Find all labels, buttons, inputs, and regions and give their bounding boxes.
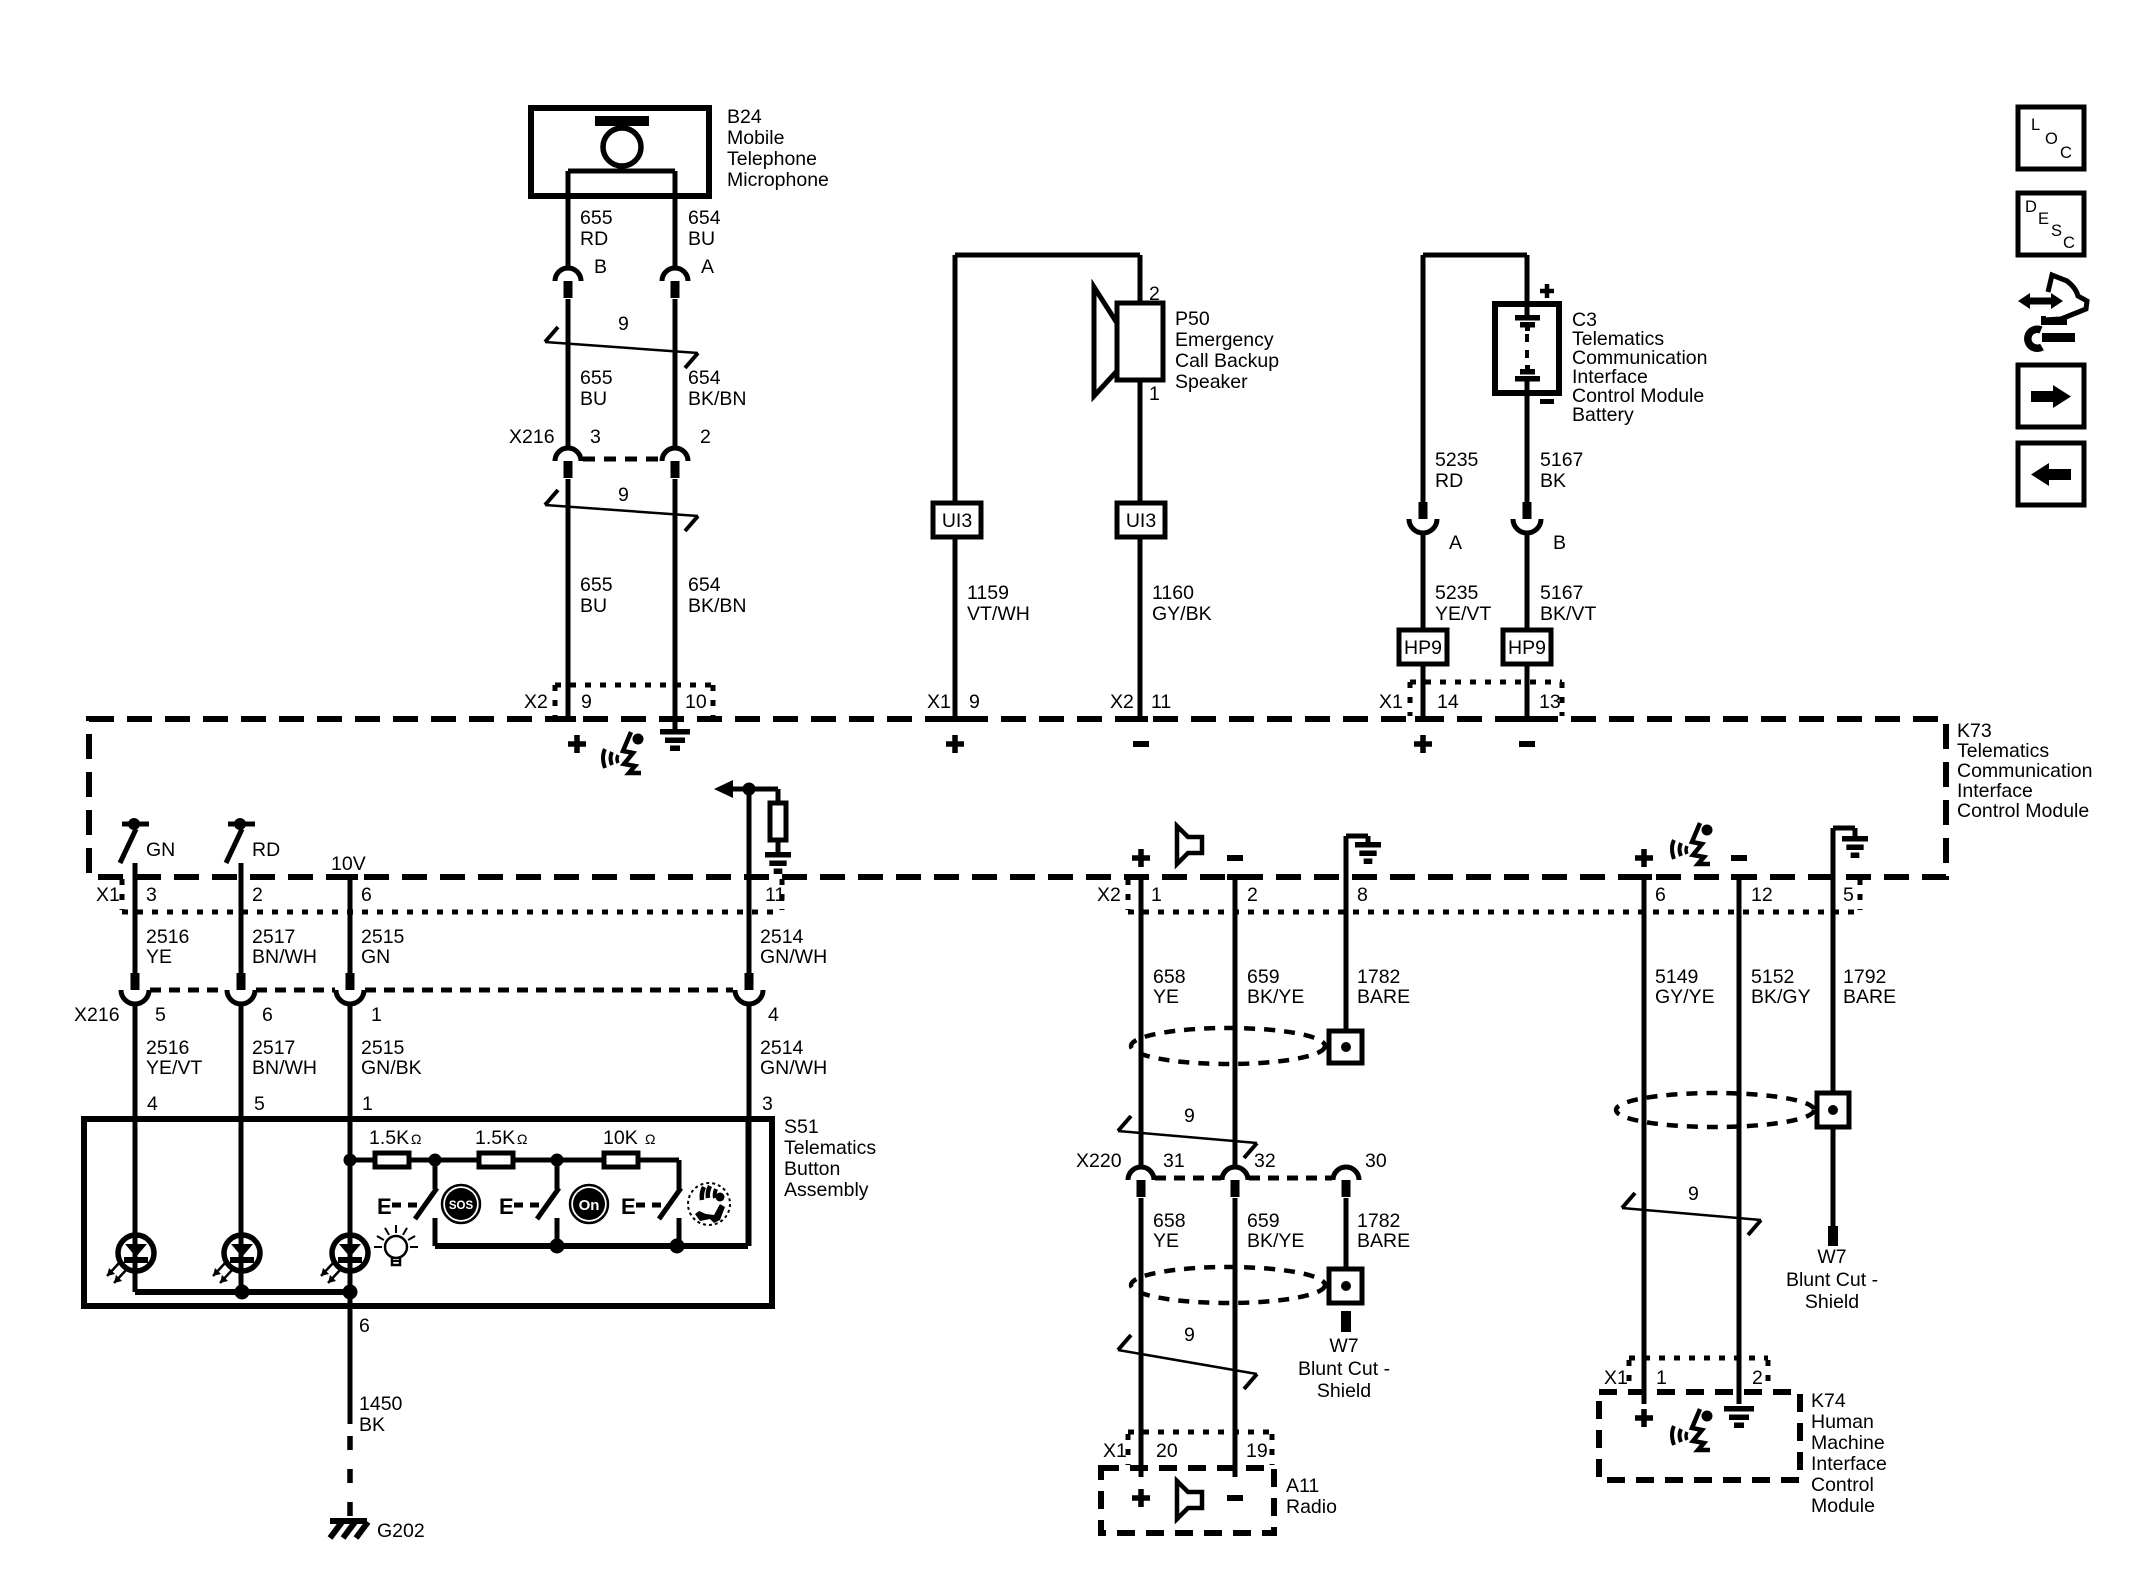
svg-text:20: 20 [1156,1440,1178,1462]
svg-text:14: 14 [1437,691,1459,713]
svg-text:C: C [2063,234,2075,252]
svg-text:B: B [594,256,607,278]
svg-text:654: 654 [688,207,721,229]
svg-text:BK: BK [1540,470,1566,492]
svg-text:2: 2 [1752,1367,1763,1389]
svg-text:6: 6 [262,1004,273,1026]
svg-text:Button: Button [784,1158,840,1180]
svg-text:6: 6 [1655,884,1666,906]
svg-text:E: E [499,1194,514,1219]
svg-text:C: C [2060,144,2072,162]
svg-text:E: E [2038,210,2049,228]
svg-text:5167: 5167 [1540,449,1583,471]
svg-text:13: 13 [1539,691,1561,713]
svg-text:11: 11 [1151,691,1171,713]
svg-text:654: 654 [688,574,721,596]
svg-text:1782: 1782 [1357,1210,1400,1232]
svg-text:2516: 2516 [146,926,189,948]
svg-text:1: 1 [1149,383,1160,405]
svg-text:BK/YE: BK/YE [1247,1230,1304,1252]
svg-text:Ω: Ω [411,1131,421,1147]
svg-text:3: 3 [146,884,157,906]
svg-text:D: D [2025,198,2037,216]
svg-text:RD: RD [252,839,280,861]
svg-text:2514: 2514 [760,926,804,948]
svg-text:X1: X1 [1379,691,1403,713]
svg-text:BK/BN: BK/BN [688,388,747,410]
svg-text:Machine: Machine [1811,1432,1885,1454]
svg-text:BARE: BARE [1357,986,1410,1008]
svg-text:10K: 10K [603,1127,638,1149]
svg-text:5235: 5235 [1435,449,1479,471]
svg-text:Control Module: Control Module [1957,800,2089,822]
svg-text:2: 2 [1149,283,1160,305]
svg-text:X2: X2 [1110,691,1134,713]
svg-text:RD: RD [1435,470,1463,492]
svg-text:1: 1 [362,1093,373,1115]
svg-text:P50: P50 [1175,308,1210,330]
svg-text:655: 655 [580,574,613,596]
svg-text:5235: 5235 [1435,582,1479,604]
svg-text:A: A [1449,532,1462,554]
svg-text:YE: YE [1153,1230,1179,1252]
svg-text:Control: Control [1811,1474,1874,1496]
svg-text:SOS: SOS [449,1200,474,1212]
svg-text:Telephone: Telephone [727,148,817,170]
svg-text:658: 658 [1153,966,1186,988]
svg-text:YE: YE [1153,986,1179,1008]
svg-text:Radio: Radio [1286,1496,1337,1518]
svg-text:Human: Human [1811,1411,1874,1433]
svg-text:1: 1 [1151,884,1162,906]
svg-text:654: 654 [688,367,721,389]
svg-text:W7: W7 [1817,1246,1846,1268]
svg-text:12: 12 [1751,884,1773,906]
svg-text:RD: RD [580,228,608,250]
svg-text:BK/GY: BK/GY [1751,986,1811,1008]
svg-text:1.5K: 1.5K [369,1127,409,1149]
svg-text:1159: 1159 [967,582,1009,604]
svg-text:1782: 1782 [1357,966,1400,988]
svg-text:Interface: Interface [1811,1453,1887,1475]
svg-text:BK: BK [359,1414,385,1436]
svg-text:B: B [1553,532,1566,554]
svg-text:Ω: Ω [517,1131,527,1147]
svg-text:X2: X2 [524,691,548,713]
svg-text:BK/BN: BK/BN [688,595,747,617]
svg-text:K74: K74 [1811,1390,1846,1412]
svg-text:BU: BU [580,595,607,617]
svg-text:X220: X220 [1076,1150,1122,1172]
svg-text:YE: YE [146,946,172,968]
svg-text:BARE: BARE [1357,1230,1410,1252]
svg-text:659: 659 [1247,1210,1280,1232]
svg-text:4: 4 [147,1093,158,1115]
svg-text:B24: B24 [727,106,762,128]
svg-text:3: 3 [590,426,601,448]
svg-text:1450: 1450 [359,1393,403,1415]
svg-text:Shield: Shield [1317,1380,1371,1402]
svg-text:S: S [2051,222,2062,240]
svg-text:W7: W7 [1329,1335,1358,1357]
svg-text:BN/WH: BN/WH [252,946,317,968]
svg-text:11: 11 [765,884,785,906]
svg-text:2516: 2516 [146,1037,189,1059]
svg-text:A11: A11 [1286,1475,1319,1497]
svg-text:GN/WH: GN/WH [760,946,827,968]
svg-text:1160: 1160 [1152,582,1194,604]
svg-text:1: 1 [1656,1367,1667,1389]
svg-text:Blunt Cut -: Blunt Cut - [1298,1358,1390,1380]
svg-text:5152: 5152 [1751,966,1794,988]
svg-text:YE/VT: YE/VT [1435,603,1491,625]
svg-text:1: 1 [371,1004,382,1026]
svg-text:X216: X216 [74,1004,120,1026]
svg-text:19: 19 [1246,1440,1268,1462]
svg-text:Module: Module [1811,1495,1875,1517]
svg-text:655: 655 [580,207,613,229]
svg-text:Microphone: Microphone [727,169,829,191]
svg-text:Mobile: Mobile [727,127,784,149]
svg-text:Interface: Interface [1957,780,2033,802]
svg-text:G202: G202 [377,1520,425,1542]
svg-text:2: 2 [1247,884,1258,906]
svg-text:Ω: Ω [645,1131,655,1147]
svg-text:659: 659 [1247,966,1280,988]
svg-text:UI3: UI3 [942,510,972,532]
svg-text:5: 5 [1843,884,1854,906]
svg-text:Telematics: Telematics [784,1137,876,1159]
svg-text:Call Backup: Call Backup [1175,350,1279,372]
svg-text:5: 5 [254,1093,265,1115]
svg-text:10V: 10V [331,853,366,875]
svg-text:O: O [2045,130,2058,148]
svg-text:2: 2 [700,426,711,448]
svg-text:X2: X2 [1097,884,1121,906]
svg-text:X216: X216 [509,426,555,448]
svg-text:2517: 2517 [252,1037,295,1059]
svg-text:HP9: HP9 [1508,637,1546,659]
svg-text:On: On [579,1197,600,1214]
svg-text:2517: 2517 [252,926,295,948]
svg-text:BARE: BARE [1843,986,1896,1008]
svg-text:BU: BU [580,388,607,410]
svg-text:Speaker: Speaker [1175,371,1248,393]
svg-text:Battery: Battery [1572,404,1634,426]
svg-text:5: 5 [155,1004,166,1026]
svg-text:YE/VT: YE/VT [146,1057,202,1079]
svg-text:L: L [2031,116,2040,134]
svg-text:Communication: Communication [1957,760,2092,782]
svg-text:VT/WH: VT/WH [967,603,1030,625]
svg-text:BN/WH: BN/WH [252,1057,317,1079]
svg-text:32: 32 [1254,1150,1276,1172]
svg-text:5149: 5149 [1655,966,1698,988]
svg-text:X1: X1 [1604,1367,1628,1389]
svg-text:9: 9 [1688,1183,1699,1205]
svg-text:BK/YE: BK/YE [1247,986,1304,1008]
svg-text:GN/BK: GN/BK [361,1057,422,1079]
svg-text:3: 3 [762,1093,773,1115]
svg-text:31: 31 [1163,1150,1185,1172]
svg-text:5167: 5167 [1540,582,1583,604]
svg-text:X1: X1 [927,691,951,713]
svg-text:E: E [377,1194,392,1219]
svg-text:S51: S51 [784,1116,819,1138]
svg-text:9: 9 [1184,1105,1195,1127]
svg-text:GN: GN [146,839,175,861]
svg-text:GY/BK: GY/BK [1152,603,1212,625]
svg-text:E: E [621,1194,636,1219]
svg-text:10: 10 [685,691,707,713]
svg-text:Telematics: Telematics [1957,740,2049,762]
svg-text:2514: 2514 [760,1037,804,1059]
svg-text:Shield: Shield [1805,1291,1859,1313]
svg-text:9: 9 [581,691,592,713]
svg-text:UI3: UI3 [1126,510,1156,532]
svg-text:658: 658 [1153,1210,1186,1232]
svg-text:X1: X1 [1103,1440,1127,1462]
svg-text:Emergency: Emergency [1175,329,1274,351]
svg-text:A: A [701,256,714,278]
svg-text:GN: GN [361,946,390,968]
svg-text:1.5K: 1.5K [475,1127,515,1149]
svg-text:2515: 2515 [361,1037,405,1059]
svg-text:9: 9 [618,313,629,335]
svg-text:GN/WH: GN/WH [760,1057,827,1079]
svg-text:BU: BU [688,228,715,250]
svg-text:2515: 2515 [361,926,405,948]
svg-text:655: 655 [580,367,613,389]
svg-text:Assembly: Assembly [784,1179,869,1201]
svg-text:BK/VT: BK/VT [1540,603,1596,625]
svg-text:GY/YE: GY/YE [1655,986,1715,1008]
svg-text:6: 6 [361,884,372,906]
svg-text:K73: K73 [1957,720,1992,742]
svg-text:9: 9 [969,691,980,713]
svg-text:4: 4 [768,1004,779,1026]
svg-text:1792: 1792 [1843,966,1886,988]
svg-text:X1: X1 [96,884,120,906]
svg-text:9: 9 [618,484,629,506]
svg-text:9: 9 [1184,1324,1195,1346]
svg-text:30: 30 [1365,1150,1387,1172]
svg-text:HP9: HP9 [1404,637,1442,659]
svg-text:2: 2 [252,884,263,906]
svg-text:8: 8 [1357,884,1368,906]
svg-text:Blunt Cut -: Blunt Cut - [1786,1269,1878,1291]
svg-text:6: 6 [359,1315,370,1337]
